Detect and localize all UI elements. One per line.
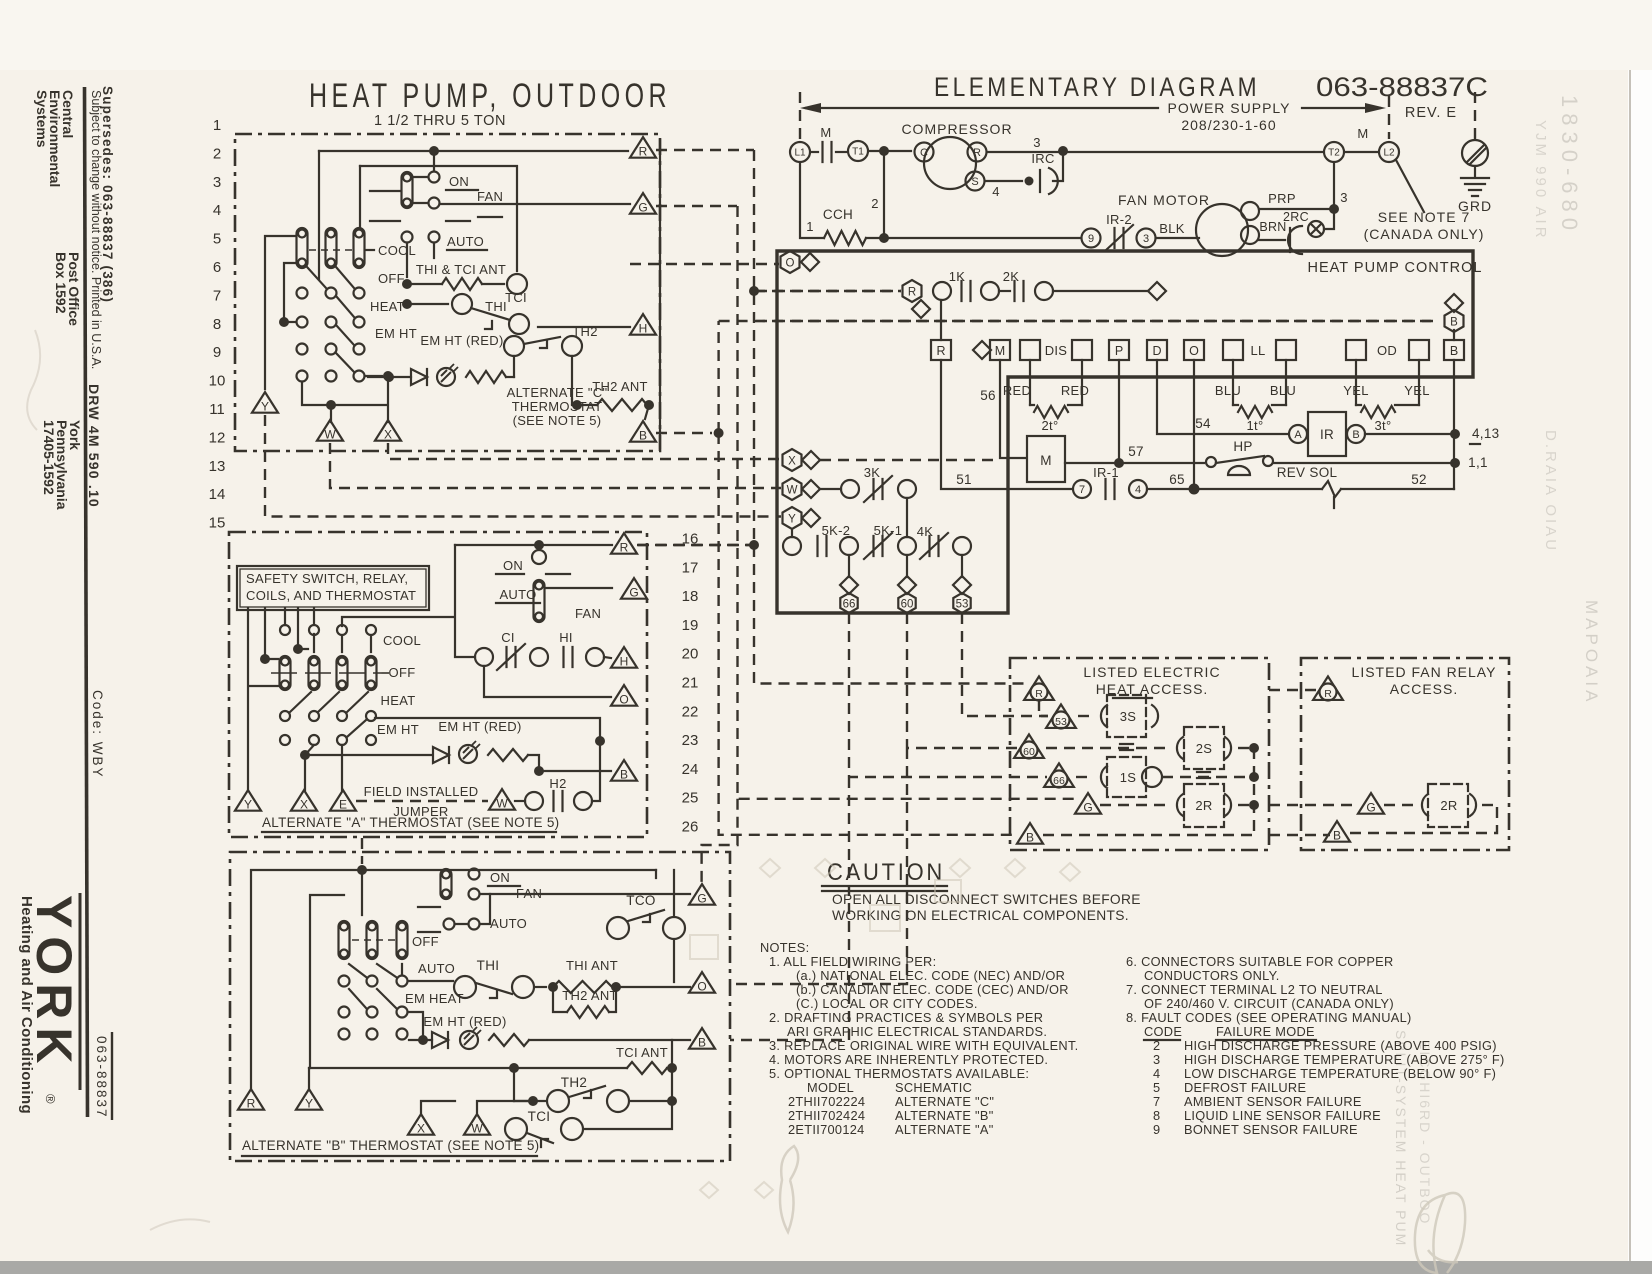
pointer line L2 to see note	[1396, 160, 1424, 212]
svg-text:SEE NOTE 7: SEE NOTE 7	[1378, 209, 1470, 225]
wire dashed B row to fan box	[1269, 834, 1330, 836]
svg-text:IRC: IRC	[1031, 151, 1054, 166]
wire dashed Y row 15	[265, 415, 781, 517]
connector G triangle	[1075, 793, 1101, 814]
wire FAN to G	[441, 203, 630, 205]
sidebar YORK underline	[79, 893, 82, 1090]
svg-text:H: H	[620, 654, 629, 668]
svg-text:REV. E: REV. E	[1405, 105, 1457, 121]
svg-text:R: R	[1035, 688, 1043, 700]
wire vertical node2	[883, 152, 885, 238]
switch H2 row	[489, 789, 515, 810]
svg-text:TH2: TH2	[561, 1075, 587, 1090]
resistor 3t	[1361, 406, 1395, 418]
wire dashed 60 feeder	[730, 613, 1018, 984]
wire dashed 66 feeder	[730, 613, 1047, 1040]
svg-text:3S: 3S	[1120, 709, 1137, 724]
connector R hex	[903, 280, 922, 302]
svg-text:(b.) CANADIAN ELEC. CODE (CEC): (b.) CANADIAN ELEC. CODE (CEC) AND/OR	[796, 982, 1069, 997]
wire P square down	[1118, 360, 1120, 463]
wire 60 drop	[906, 555, 908, 577]
svg-text:B: B	[1026, 830, 1034, 844]
wire LL drops	[1232, 360, 1234, 405]
contact TH2 B	[528, 1096, 538, 1106]
wire dashed GRD drop	[1474, 92, 1476, 139]
relay M coil	[1027, 436, 1065, 482]
svg-text:8. FAULT CODES (SEE OPERATING: 8. FAULT CODES (SEE OPERATING MANUAL)	[1126, 1010, 1412, 1025]
terminal B square	[1444, 340, 1464, 360]
resistor 2t	[1034, 406, 1068, 418]
alternate A thermostat box	[229, 532, 647, 837]
svg-text:4: 4	[1135, 484, 1141, 496]
svg-text:D.RAIA OIAU: D.RAIA OIAU	[1542, 430, 1559, 553]
wire PRP to node	[1259, 208, 1332, 210]
connector Y triangle A	[235, 790, 261, 811]
svg-text:O: O	[697, 979, 706, 993]
svg-text:1K: 1K	[949, 269, 966, 284]
svg-text:063-88837C: 063-88837C	[1316, 72, 1488, 102]
svg-text:2RC: 2RC	[1283, 210, 1309, 224]
sidebar rule	[85, 87, 88, 1117]
svg-text:17405-1592: 17405-1592	[41, 420, 57, 495]
wire 4 to 65 node	[1147, 488, 1194, 490]
node dot 2R	[1249, 800, 1259, 810]
connector B triangle A	[611, 760, 637, 781]
svg-text:S: S	[971, 176, 978, 188]
wire dashed R A-box row	[638, 544, 754, 546]
svg-text:FAN: FAN	[575, 606, 601, 621]
svg-text:1. ALL FIELD WIRING PER:: 1. ALL FIELD WIRING PER:	[769, 954, 936, 969]
resistor THI ANT	[553, 981, 612, 993]
svg-text:SPLIT-SYSTEM HEAT PUM: SPLIT-SYSTEM HEAT PUM	[1393, 1030, 1409, 1247]
svg-text:3. REPLACE ORIGINAL WIRE WITH: 3. REPLACE ORIGINAL WIRE WITH EQUIVALENT…	[769, 1038, 1079, 1053]
svg-text:COMPRESSOR: COMPRESSOR	[901, 121, 1012, 137]
svg-text:M: M	[1040, 453, 1052, 468]
svg-text:60: 60	[901, 599, 914, 611]
svg-text:HEAT: HEAT	[370, 299, 405, 314]
svg-text:R: R	[1324, 688, 1332, 700]
svg-text:LOW DISCHARGE TEMPERATURE (BEL: LOW DISCHARGE TEMPERATURE (BELOW 90° F)	[1184, 1066, 1496, 1081]
connector B triangle fan	[1324, 821, 1350, 842]
svg-text:15: 15	[209, 515, 226, 532]
svg-text:7. CONNECT TERMINAL L2 TO NEUT: 7. CONNECT TERMINAL L2 TO NEUTRAL	[1126, 982, 1383, 997]
connector W triangle C	[317, 420, 343, 441]
svg-text:T1: T1	[852, 147, 864, 158]
terminal C	[915, 143, 934, 162]
svg-text:9: 9	[1153, 1122, 1160, 1137]
terminal R	[968, 143, 987, 162]
wire 66 drop	[848, 555, 850, 577]
wire TCI ANT row	[309, 1067, 627, 1069]
wire dashed R vertical	[754, 150, 1026, 684]
connector X hex	[783, 449, 802, 471]
svg-text:RED: RED	[1061, 383, 1089, 398]
svg-text:HEAT: HEAT	[381, 693, 416, 708]
svg-text:LL: LL	[1250, 343, 1265, 358]
node dot 1S	[1249, 772, 1259, 782]
wire bank feeds A	[248, 608, 371, 790]
node top rail	[429, 146, 439, 156]
svg-text:7: 7	[1079, 484, 1085, 496]
svg-text:2K: 2K	[1003, 269, 1020, 284]
wire TCO drop	[656, 870, 674, 982]
node dot 2S	[1249, 743, 1259, 753]
svg-text:G: G	[638, 200, 647, 214]
wire dashed 53 feeder	[962, 613, 1048, 716]
svg-text:W: W	[471, 1121, 483, 1135]
svg-text:O: O	[786, 258, 795, 270]
wire 2K to diamond	[999, 290, 1010, 292]
svg-text:24: 24	[682, 761, 699, 778]
resistor emht B	[489, 1034, 529, 1046]
svg-text:Systems: Systems	[34, 90, 50, 148]
svg-text:X: X	[417, 1121, 425, 1135]
svg-text:Y: Y	[244, 797, 252, 811]
svg-text:2R: 2R	[1440, 798, 1457, 813]
wire dashed B row	[756, 320, 1438, 322]
svg-text:COILS, AND THERMOSTAT: COILS, AND THERMOSTAT	[246, 588, 416, 603]
contact rows C bank	[297, 288, 308, 299]
wire dashed R out A	[637, 544, 756, 546]
svg-text:C: C	[920, 147, 928, 159]
node diamond	[1148, 282, 1166, 300]
dash cool	[309, 249, 352, 251]
contact 3K	[841, 480, 859, 498]
wire dashed X to M wire	[820, 459, 1000, 461]
ground symbol	[1461, 166, 1489, 196]
connector 60 triangle	[1014, 734, 1044, 758]
svg-text:3: 3	[1033, 135, 1041, 150]
svg-text:L2: L2	[1383, 148, 1395, 159]
svg-text:X: X	[788, 456, 796, 468]
svg-text:ALTERNATE "C": ALTERNATE "C"	[895, 1094, 994, 1109]
connector B triangle C	[630, 421, 656, 442]
ghost diamonds row	[690, 859, 1080, 1198]
node R row junction	[749, 286, 759, 296]
switch ON FAN B	[441, 869, 452, 899]
svg-text:208/230-1-60: 208/230-1-60	[1181, 117, 1276, 133]
wire th2 lower drop	[571, 356, 573, 399]
svg-text:®: ®	[43, 1094, 58, 1104]
svg-text:(SEE NOTE 5): (SEE NOTE 5)	[513, 413, 602, 428]
connector X triangle C	[375, 420, 401, 441]
svg-text:Subject to change without noti: Subject to change without notice. Printe…	[89, 90, 103, 369]
svg-text:5: 5	[213, 231, 221, 248]
svg-text:13: 13	[209, 458, 226, 475]
svg-text:3: 3	[1153, 1052, 1160, 1067]
svg-text:CAUTION: CAUTION	[827, 859, 945, 886]
svg-text:ALTERNATE "A" THERMOSTAT (SEE: ALTERNATE "A" THERMOSTAT (SEE NOTE 5)	[262, 815, 559, 830]
ground fuse symbol	[1462, 140, 1488, 166]
svg-text:20: 20	[682, 646, 699, 663]
svg-text:25: 25	[682, 790, 699, 807]
terminal T2	[1324, 142, 1344, 162]
svg-text:3: 3	[213, 174, 221, 191]
svg-text:2. DRAFTING PRACTICES & SYMBOL: 2. DRAFTING PRACTICES & SYMBOLS PER	[769, 1010, 1043, 1025]
svg-text:M: M	[995, 344, 1005, 358]
svg-text:1 1/2 THRU 5 TON: 1 1/2 THRU 5 TON	[374, 113, 506, 129]
svg-text:LISTED ELECTRIC: LISTED ELECTRIC	[1083, 664, 1220, 680]
wire 3 to fan motor	[1156, 237, 1199, 239]
svg-text:POWER SUPPLY: POWER SUPPLY	[1168, 100, 1291, 116]
svg-text:1,1: 1,1	[1468, 455, 1488, 470]
svg-text:4: 4	[1153, 1066, 1160, 1081]
svg-text:G: G	[697, 891, 706, 905]
svg-text:ALTERNATE "A": ALTERNATE "A"	[895, 1122, 994, 1137]
svg-text:OF 240/460 V. CIRCUIT (CANADA: OF 240/460 V. CIRCUIT (CANADA ONLY)	[1144, 996, 1394, 1011]
svg-text:5: 5	[1153, 1080, 1160, 1095]
switch bank B capsules	[339, 921, 350, 959]
svg-text:ON: ON	[449, 174, 469, 189]
wire OD drops	[1355, 360, 1357, 405]
svg-text:REV SOL: REV SOL	[1277, 465, 1338, 480]
svg-text:SCHEMATIC: SCHEMATIC	[895, 1080, 972, 1095]
switch arms B	[349, 964, 366, 977]
wire dashed L2 drop	[1388, 96, 1390, 139]
connector G triangle fan	[1358, 793, 1384, 814]
fan terminal PRP	[1241, 202, 1259, 220]
svg-text:YJM 990 AIR: YJM 990 AIR	[1532, 120, 1549, 241]
node 1,1	[1450, 458, 1460, 468]
svg-text:9: 9	[213, 344, 221, 361]
wire dashed R row to fan box	[1269, 689, 1316, 691]
svg-text:23: 23	[682, 732, 699, 749]
wire 3K down to 4K row	[906, 498, 908, 537]
wire to O	[616, 986, 690, 988]
lamp 2RC	[1308, 221, 1324, 237]
wire THI out	[535, 986, 546, 988]
svg-text:G: G	[1083, 800, 1092, 814]
wire top rail B	[362, 869, 656, 871]
svg-text:AMBIENT SENSOR FAILURE: AMBIENT SENSOR FAILURE	[1184, 1094, 1362, 1109]
svg-text:B: B	[698, 1035, 706, 1049]
wire DIS drops	[1029, 360, 1031, 405]
terminal L1	[790, 142, 810, 162]
wire top rail	[319, 150, 628, 152]
svg-text:OFF: OFF	[412, 934, 439, 949]
connector O triangle A	[611, 685, 637, 706]
capacitor IRC	[1039, 170, 1041, 192]
svg-text:1t°: 1t°	[1247, 418, 1264, 433]
mech link 3S-1S	[1120, 744, 1133, 750]
node 57	[1114, 458, 1124, 468]
connector Y hex	[783, 507, 802, 529]
terminal 9	[1082, 229, 1101, 248]
wire O row A	[484, 666, 611, 697]
terminal T1	[848, 141, 868, 161]
connector R triangle C	[630, 137, 656, 158]
REV SOL	[1194, 488, 1322, 490]
wire M square down	[1000, 360, 1026, 458]
svg-text:H: H	[639, 321, 648, 335]
diode emht	[411, 369, 427, 385]
svg-text:26: 26	[682, 819, 699, 836]
diode emht B	[432, 1032, 448, 1048]
svg-text:3t°: 3t°	[1375, 418, 1392, 433]
svg-text:57: 57	[1128, 444, 1144, 459]
svg-text:B: B	[1450, 344, 1458, 358]
node R A-box junction	[749, 540, 759, 550]
svg-text:IR: IR	[1320, 427, 1334, 442]
svg-text:R: R	[639, 144, 648, 158]
wire dashed G row to fan box	[1269, 804, 1358, 806]
svg-text:THI: THI	[477, 958, 500, 973]
terminal OD squares	[1346, 340, 1366, 360]
svg-text:4: 4	[992, 184, 1000, 199]
coil 2R fan	[1384, 804, 1415, 806]
svg-text:BLU: BLU	[1270, 383, 1296, 398]
resistor 1t	[1238, 406, 1272, 418]
wire dashed X row 13	[388, 443, 781, 459]
wire Y up link	[265, 236, 295, 389]
svg-text:BONNET SENSOR FAILURE: BONNET SENSOR FAILURE	[1184, 1122, 1358, 1137]
svg-text:2S: 2S	[1196, 741, 1213, 756]
svg-text:52: 52	[1411, 472, 1427, 487]
connector G triangle C	[630, 193, 656, 214]
svg-text:7: 7	[213, 287, 221, 304]
svg-text:65: 65	[1169, 472, 1185, 487]
wire top rail A	[455, 544, 612, 546]
svg-text:B: B	[639, 428, 647, 442]
wire CCH to node 2	[866, 237, 884, 239]
wire auto drop	[406, 243, 408, 277]
svg-text:LISTED FAN RELAY: LISTED FAN RELAY	[1352, 664, 1497, 680]
coil 2R heat	[1100, 804, 1170, 806]
svg-text:1830-680: 1830-680	[1557, 95, 1582, 236]
terminal S	[966, 172, 985, 191]
svg-text:9: 9	[1088, 233, 1094, 245]
svg-text:Y: Y	[305, 1096, 313, 1110]
terminal D square	[1147, 340, 1167, 360]
connector R triangle A	[611, 533, 637, 554]
connector B triangle	[1017, 823, 1043, 844]
wire dashed R row	[756, 290, 901, 292]
connector O hex	[781, 251, 800, 273]
svg-text:2THII702224: 2THII702224	[788, 1094, 865, 1109]
svg-text:BLU: BLU	[1215, 383, 1241, 398]
svg-text:2: 2	[213, 145, 221, 162]
connector E triangle A	[330, 790, 356, 811]
wire bank bottom A	[305, 745, 342, 790]
svg-text:Heating and Air Conditioning: Heating and Air Conditioning	[18, 896, 35, 1114]
alternate C thermostat box	[235, 134, 660, 451]
wire dashed B row into HPC	[754, 320, 1438, 322]
svg-text:ARI GRAPHIC ELECTRICAL STANDAR: ARI GRAPHIC ELECTRICAL STANDARDS.	[787, 1024, 1047, 1039]
wire R square down to 51 row	[941, 360, 1072, 489]
svg-text:GRD: GRD	[1458, 198, 1492, 214]
svg-text:CCH: CCH	[823, 207, 853, 222]
svg-text:DEFROST FAILURE: DEFROST FAILURE	[1184, 1080, 1306, 1095]
svg-text:COOL: COOL	[383, 633, 421, 648]
svg-text:B: B	[620, 767, 628, 781]
svg-text:W: W	[496, 796, 508, 810]
wire dashed L1 drop	[799, 92, 801, 140]
svg-text:11: 11	[209, 401, 225, 418]
coil 1S	[1076, 776, 1094, 778]
wire TH2 to H	[538, 326, 630, 328]
wire Y col	[318, 151, 320, 279]
listed fan relay access box	[1301, 658, 1509, 850]
contact TCI B	[505, 1118, 527, 1140]
svg-text:1S: 1S	[1120, 770, 1137, 785]
svg-text:R: R	[620, 540, 629, 554]
svg-text:EICGHI6RD - OUTBOO: EICGHI6RD - OUTBOO	[1417, 1040, 1433, 1225]
svg-text:8: 8	[213, 316, 221, 333]
svg-text:T2: T2	[1328, 148, 1340, 159]
svg-text:BLK: BLK	[1159, 221, 1185, 236]
svg-text:E: E	[339, 797, 347, 811]
svg-text:THI & TCI ANT: THI & TCI ANT	[416, 262, 506, 277]
svg-text:IR-1: IR-1	[1093, 465, 1119, 480]
wire B hex to B square	[1453, 330, 1455, 340]
node thi	[402, 279, 412, 289]
wire Y down	[791, 529, 793, 537]
svg-text:TCI: TCI	[528, 1109, 551, 1124]
switch bank A	[280, 625, 290, 635]
wire 53 drop	[961, 555, 963, 577]
terminal M square	[973, 341, 991, 359]
connector O triangle B	[689, 972, 715, 993]
svg-text:12: 12	[209, 429, 226, 446]
resistor emht	[466, 371, 506, 383]
svg-text:CONDUCTORS ONLY.: CONDUCTORS ONLY.	[1144, 968, 1280, 983]
svg-text:(a.) NATIONAL ELEC. CODE (NEC): (a.) NATIONAL ELEC. CODE (NEC) AND/OR	[796, 968, 1065, 983]
svg-text:53: 53	[956, 599, 969, 611]
fan terminal BRN	[1241, 226, 1259, 244]
svg-text:NOTES:: NOTES:	[760, 940, 809, 955]
svg-text:66: 66	[843, 599, 856, 611]
svg-text:SAFETY SWITCH, RELAY,: SAFETY SWITCH, RELAY,	[246, 571, 408, 586]
connector G triangle A	[621, 578, 647, 599]
svg-text:1: 1	[806, 219, 814, 234]
resistor TH2 ANT	[572, 399, 592, 405]
svg-text:O: O	[619, 692, 628, 706]
svg-text:YEL: YEL	[1404, 383, 1429, 398]
wire B row A	[534, 766, 544, 776]
svg-text:AUTO: AUTO	[499, 587, 536, 602]
wire emht row B	[409, 1039, 432, 1041]
switch ON/FAN capsule	[402, 172, 413, 208]
connector R triangle	[1024, 676, 1054, 700]
wire D square down to IR row	[1157, 360, 1288, 434]
svg-text:6: 6	[213, 259, 221, 276]
node junction 2	[879, 233, 889, 243]
svg-text:AUTO: AUTO	[418, 961, 455, 976]
wire TCI up rail	[360, 166, 517, 271]
svg-text:D: D	[1152, 344, 1161, 358]
terminal DIS squares	[1020, 340, 1040, 360]
svg-text:TCI: TCI	[505, 290, 527, 305]
svg-text:W: W	[324, 427, 336, 441]
svg-text:X: X	[300, 797, 308, 811]
wire dashed W row 14	[330, 443, 781, 488]
svg-text:A: A	[1294, 429, 1302, 441]
svg-text:21: 21	[682, 675, 699, 692]
svg-text:17: 17	[682, 559, 699, 576]
svg-text:2THII702424: 2THII702424	[788, 1108, 865, 1123]
wire to fan contact 9	[884, 237, 1081, 239]
svg-text:THERMOSTAT: THERMOSTAT	[512, 399, 603, 414]
svg-text:THI: THI	[485, 299, 507, 314]
svg-text:R: R	[936, 344, 945, 358]
svg-text:CODE: CODE	[1144, 1024, 1182, 1039]
svg-text:1: 1	[213, 117, 221, 134]
svg-text:60: 60	[1023, 746, 1035, 758]
contact 5K-2	[783, 537, 801, 555]
wire HEAT row	[375, 718, 600, 741]
power supply arrow	[806, 107, 1158, 109]
wire FAN to G B	[481, 893, 690, 895]
